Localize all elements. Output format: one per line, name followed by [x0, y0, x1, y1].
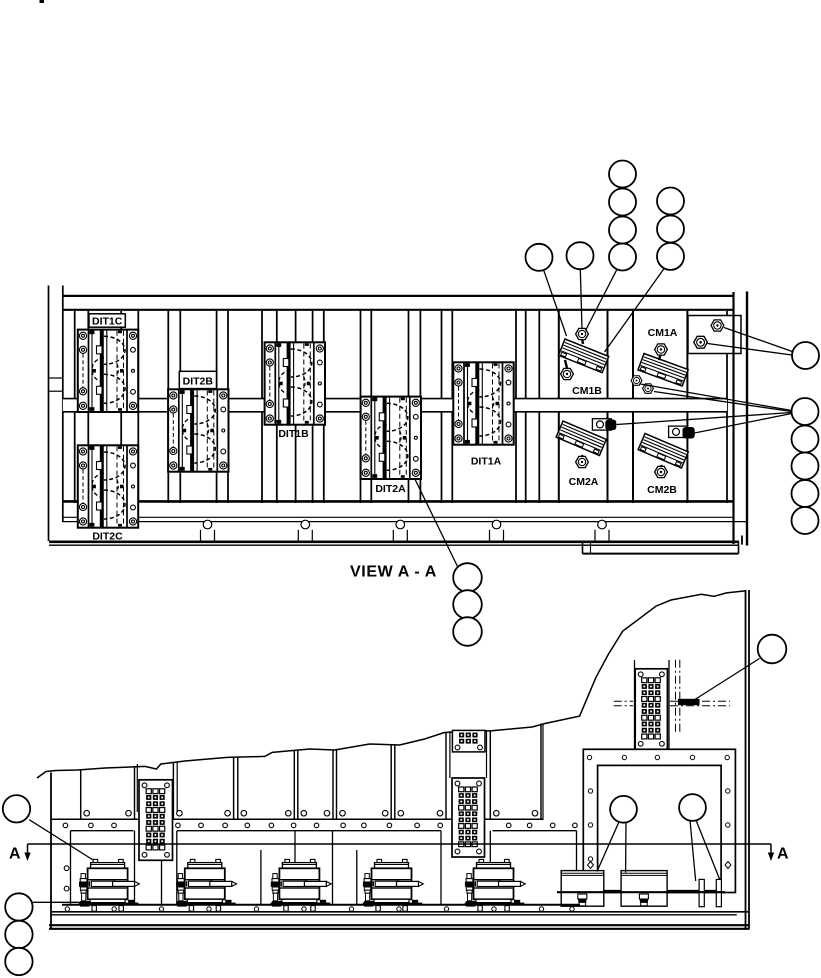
callout circle — [792, 453, 819, 480]
transformer DIT1B — [265, 342, 325, 424]
svg-text:CM1B: CM1B — [572, 385, 602, 397]
callout circle — [453, 590, 482, 619]
callout circle — [792, 342, 819, 369]
current monitor CM2B — [638, 426, 695, 478]
frame top line 2 — [63, 309, 734, 311]
callout circle — [610, 796, 637, 823]
section line A-A — [28, 843, 772, 845]
callout circle — [567, 242, 594, 269]
bottom view right edge — [745, 590, 747, 930]
label box DIT2B — [179, 371, 216, 388]
bay divider lines — [71, 831, 577, 905]
frame right edge — [732, 292, 734, 544]
motor unit M3 — [271, 859, 332, 911]
callout circle — [453, 617, 482, 646]
motor unit M4 — [363, 859, 424, 911]
transformer DIT1A — [453, 362, 513, 444]
stud line — [176, 762, 178, 812]
svg-text:DIT1B: DIT1B — [278, 428, 309, 440]
transformer DIT2C — [78, 445, 138, 527]
transformer DIT2B — [168, 389, 228, 471]
callout circle — [792, 507, 819, 534]
CM2B connector nut — [669, 426, 688, 437]
terminal block TB2 — [452, 778, 485, 857]
base rail — [62, 904, 580, 906]
transformer unit U2 — [621, 871, 667, 907]
central horizontal shelf band — [63, 399, 727, 412]
svg-text:CM2A: CM2A — [569, 476, 599, 488]
callout circle — [792, 426, 819, 453]
svg-text:VIEW A - A: VIEW A - A — [350, 564, 437, 581]
svg-text:DIT2A: DIT2A — [375, 483, 406, 495]
bottom right mounting tab — [582, 542, 584, 554]
torn break edge — [37, 591, 746, 778]
callout circle — [792, 398, 819, 425]
bottom rail line 3 — [63, 521, 746, 523]
bay top line — [71, 830, 134, 832]
callout circle — [5, 921, 32, 948]
leader lines in right box — [597, 820, 720, 881]
base bottom line 1 — [49, 924, 749, 926]
bay top line — [493, 830, 577, 832]
callout circle — [609, 217, 636, 244]
stud line block C — [634, 660, 636, 751]
left column bolts — [64, 866, 69, 871]
current monitor CM1B — [559, 328, 609, 379]
callout circle — [609, 161, 636, 188]
callout circle — [3, 795, 30, 822]
base channel top — [51, 911, 749, 913]
bay top line — [177, 830, 441, 832]
mounting posts — [699, 879, 704, 906]
section arrow left — [24, 844, 30, 861]
motor unit M2 — [176, 859, 237, 911]
svg-text:A: A — [777, 846, 789, 863]
leader lines — [29, 267, 792, 902]
box frame bolts — [587, 755, 730, 888]
svg-text:DIT2B: DIT2B — [183, 376, 214, 388]
label box DIT1C — [89, 314, 125, 327]
page crop mark — [40, 0, 45, 3]
transformer DIT2A — [361, 397, 421, 479]
svg-text:DIT1C: DIT1C — [92, 316, 123, 328]
bottom rail line 1 — [63, 500, 734, 503]
top right connector box — [688, 316, 741, 354]
frame right edge over box — [732, 316, 734, 354]
stud line — [449, 731, 451, 778]
terminal block TB1 — [139, 780, 173, 861]
callout circle — [657, 216, 684, 243]
frame left inner edge — [62, 286, 64, 523]
stud line — [542, 724, 544, 820]
right corner bracket line — [741, 536, 743, 545]
callout circle — [609, 244, 636, 271]
left edge tick — [49, 377, 63, 379]
callout circle — [609, 189, 636, 216]
alignment crosshair — [614, 660, 730, 733]
left edge tick — [49, 390, 63, 392]
bottom view right outer edge — [748, 590, 750, 930]
svg-text:A: A — [9, 846, 21, 863]
terminal block TB3 — [635, 669, 667, 750]
callout circle — [792, 480, 819, 507]
bottom edge thick — [49, 540, 739, 543]
callout circle — [657, 243, 684, 270]
bottom rail bolt holes — [201, 520, 610, 541]
motor unit M1 — [79, 859, 140, 911]
bottom view left edge — [50, 773, 52, 930]
wall panels — [81, 724, 541, 820]
bottom edge thin — [49, 544, 739, 546]
vertical mounting rails — [75, 311, 727, 503]
callout circle — [758, 635, 787, 664]
frame top line 1 — [63, 295, 734, 297]
current monitor CM2A — [556, 419, 616, 468]
stud line — [486, 730, 488, 778]
panel bottom rail — [51, 818, 544, 820]
svg-text:CM2B: CM2B — [647, 484, 677, 496]
transformer unit U1 — [561, 871, 604, 907]
base rail bolts — [65, 907, 574, 911]
stud line — [136, 764, 138, 812]
right equipment box inner — [598, 765, 722, 890]
callout circle — [657, 188, 684, 215]
svg-text:DIT2C: DIT2C — [92, 531, 123, 543]
frame left outer edge — [48, 286, 50, 542]
callout circle — [453, 563, 482, 592]
callout circle — [679, 794, 706, 821]
callout circle — [526, 244, 553, 271]
right equipment box outer — [583, 749, 735, 892]
motor unit M5 — [465, 859, 526, 911]
stud line block C — [668, 660, 670, 751]
svg-text:DIT1A: DIT1A — [471, 456, 502, 468]
transformer DIT1C — [78, 330, 138, 412]
svg-text:CM1A: CM1A — [648, 327, 678, 339]
base bottom line 2 — [49, 928, 749, 930]
box frame diamond bolts — [725, 862, 731, 869]
current monitor CM1A — [631, 344, 688, 393]
frame right outer line — [746, 292, 748, 546]
base channel line — [51, 914, 737, 916]
section arrow right — [768, 844, 774, 861]
terminal block TB2 upper section — [452, 730, 485, 752]
CM2A connector nut — [592, 419, 611, 430]
bolt hole row — [63, 823, 577, 828]
right box shelf line — [557, 891, 725, 893]
bottom rail line 2 — [63, 516, 734, 518]
callout circle — [5, 948, 32, 975]
callout circle — [5, 893, 32, 920]
